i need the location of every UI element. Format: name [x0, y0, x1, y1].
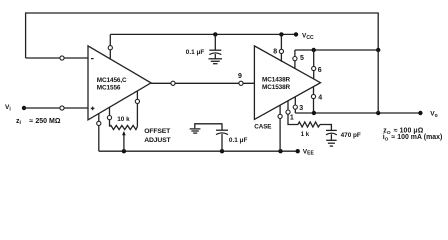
node pin6 junction — [312, 48, 316, 52]
svg-text:MC1456,C: MC1456,C — [97, 77, 127, 84]
capacitor C2 0.1uF bottom — [195, 124, 222, 130]
svg-text:5: 5 — [300, 55, 304, 62]
node Vi terminal — [22, 106, 26, 110]
wire right vertical — [377, 50, 379, 113]
node wiper junction — [122, 149, 126, 153]
svg-text:MC1538R: MC1538R — [262, 84, 291, 91]
svg-text:470 pF: 470 pF — [341, 132, 361, 139]
svg-text:1: 1 — [290, 114, 294, 121]
pin plus U1 — [91, 107, 95, 109]
svg-text:VCC: VCC — [302, 33, 314, 41]
svg-text:ADJUST: ADJUST — [144, 137, 171, 144]
capacitor C1 0.1uF — [214, 34, 216, 50]
pin minus U1 — [91, 58, 94, 60]
node pin4 junction — [312, 111, 316, 115]
ground C1 — [209, 58, 223, 60]
wire Vee rail — [99, 150, 298, 152]
wire pins 5-6 strap — [295, 49, 378, 51]
svg-text:8: 8 — [273, 49, 277, 56]
node junction pin8 — [279, 32, 283, 36]
wire U1 Vcc pin — [109, 34, 111, 59]
svg-text:10 k: 10 k — [117, 116, 130, 123]
wire output rail — [295, 112, 420, 114]
node case junction — [278, 149, 282, 153]
node right vertical junction top — [376, 48, 380, 52]
wire pin 1 to R2 — [288, 101, 298, 125]
wire Vcc rail — [110, 33, 296, 35]
wire pin 5 — [294, 50, 296, 68]
svg-text:MC1438R: MC1438R — [262, 76, 291, 83]
svg-text:6: 6 — [318, 67, 322, 74]
svg-text:VEE: VEE — [303, 148, 315, 156]
wire Vi input — [24, 107, 88, 109]
ground C2 — [190, 128, 201, 130]
wire pin 8 — [280, 34, 282, 61]
svg-text:0.1 μF: 0.1 μF — [229, 137, 248, 144]
wire pin 6 — [313, 50, 315, 79]
wire offset pin left — [109, 107, 111, 127]
ground C3 — [326, 139, 336, 141]
svg-text:4: 4 — [318, 94, 322, 101]
node VCC terminal — [294, 32, 298, 36]
wire inverting input — [26, 57, 88, 59]
node cap C2 junction — [220, 149, 224, 153]
wire feedback top — [26, 13, 379, 58]
wire pin 3 — [294, 97, 296, 113]
resistor R1 10k potentiometer — [110, 125, 138, 129]
node right vertical junction bottom — [376, 111, 380, 115]
op-amp U1 MC1456 — [88, 46, 151, 120]
wire case pin — [279, 105, 281, 151]
wire U1 output to U2 — [151, 82, 254, 84]
resistor R2 1k — [298, 122, 320, 127]
wire R2 to C3 — [320, 125, 331, 131]
svg-text:3: 3 — [299, 105, 303, 112]
svg-text:zi≈250 MΩ: zi≈250 MΩ — [16, 118, 61, 126]
svg-text:CASE: CASE — [254, 124, 271, 131]
svg-text:1 k: 1 k — [301, 132, 310, 138]
wire U1 Vee pin — [98, 114, 100, 152]
svg-text:Vi: Vi — [5, 104, 11, 113]
node Vo terminal — [418, 111, 422, 115]
svg-text:Vo: Vo — [430, 111, 437, 119]
node VEE terminal — [296, 149, 300, 153]
node junction cap C1 — [213, 32, 217, 36]
wire pin 4 — [313, 87, 315, 113]
op-amp U2 MC1438R — [254, 46, 320, 120]
node feedback circle — [60, 56, 64, 60]
wire offset pin right — [136, 91, 138, 127]
capacitor C3 470pF — [326, 129, 337, 131]
svg-text:9: 9 — [238, 73, 242, 80]
svg-text:MC1556: MC1556 — [97, 85, 121, 92]
svg-text:iO ≈ 100 mA (max): iO ≈ 100 mA (max) — [383, 134, 443, 142]
wiper arrow R1 — [123, 135, 125, 152]
svg-text:OFFSET: OFFSET — [144, 128, 171, 135]
node input circle — [60, 106, 64, 110]
svg-text:0.1 μF: 0.1 μF — [186, 49, 205, 56]
